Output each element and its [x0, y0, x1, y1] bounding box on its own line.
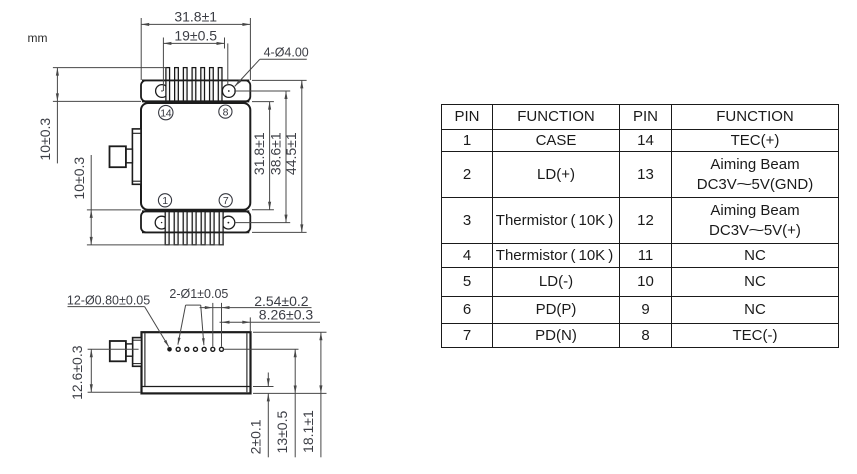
svg-text:10±0.3: 10±0.3: [71, 157, 87, 200]
svg-text:38.6±1: 38.6±1: [268, 132, 284, 175]
svg-text:14: 14: [160, 107, 172, 119]
svg-text:4-Ø4.00: 4-Ø4.00: [264, 45, 309, 59]
svg-text:10±0.3: 10±0.3: [37, 118, 53, 161]
svg-text:13±0.5: 13±0.5: [274, 411, 290, 454]
svg-text:31.8±1: 31.8±1: [174, 8, 217, 24]
svg-text:1: 1: [162, 195, 168, 207]
svg-text:44.5±1: 44.5±1: [283, 132, 299, 175]
svg-text:8.26±0.3: 8.26±0.3: [259, 306, 314, 322]
svg-text:19±0.5: 19±0.5: [174, 28, 217, 44]
svg-text:8: 8: [223, 106, 229, 118]
svg-text:31.8±1: 31.8±1: [251, 132, 267, 175]
svg-text:mm: mm: [28, 31, 48, 45]
svg-text:2±0.1: 2±0.1: [248, 419, 264, 454]
svg-text:12-Ø0.80±0.05: 12-Ø0.80±0.05: [67, 293, 150, 307]
svg-text:2-Ø1±0.05: 2-Ø1±0.05: [169, 287, 228, 301]
svg-text:7: 7: [223, 195, 229, 207]
svg-text:18.1±1: 18.1±1: [300, 410, 316, 453]
svg-text:12.6±0.3: 12.6±0.3: [69, 345, 85, 400]
